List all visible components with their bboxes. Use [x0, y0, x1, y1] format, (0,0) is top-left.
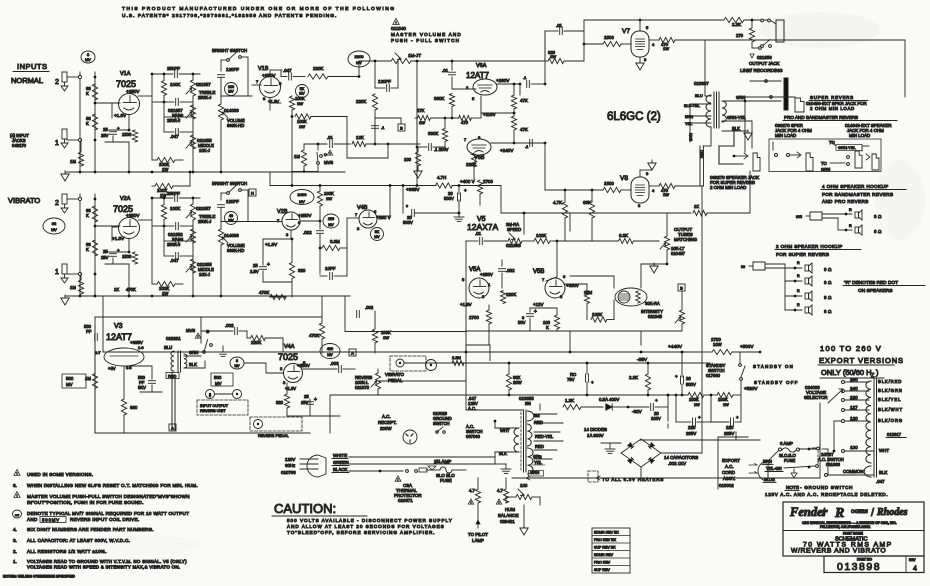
svg-text:1W: 1W [383, 335, 389, 340]
svg-text:BLU: BLU [164, 345, 172, 350]
svg-text:021956: 021956 [757, 55, 772, 60]
svg-text:GRn: GRn [533, 454, 542, 459]
svg-text:100V: 100V [651, 416, 661, 421]
svg-text:14 DIODES: 14 DIODES [584, 427, 607, 432]
svg-text:285V: 285V [686, 431, 696, 436]
svg-text:!: ! [198, 335, 199, 339]
svg-text:MASTER VOLUME AND: MASTER VOLUME AND [391, 32, 462, 37]
svg-text:013002: 013002 [719, 483, 734, 488]
svg-text:BLK/RED: BLK/RED [878, 379, 902, 384]
svg-text:+: + [267, 262, 270, 268]
svg-text:+12V: +12V [533, 302, 543, 307]
svg-text:MV: MV [328, 223, 334, 227]
svg-text:2200: 2200 [355, 54, 365, 59]
svg-text:NORMAL: NORMAL [11, 76, 43, 85]
svg-text:THIS PRODUCT MANUFACTURED UNDE: THIS PRODUCT MANUFACTURED UNDER ONE OR M… [122, 6, 396, 12]
svg-text:127: 127 [850, 405, 858, 410]
svg-text:-62V: -62V [632, 409, 643, 414]
svg-text:999K-HD: 999K-HD [227, 123, 244, 128]
svg-text:PRO REV EX: PRO REV EX [594, 538, 617, 542]
svg-text:V8: V8 [620, 175, 628, 182]
svg-text:B: B [400, 126, 403, 131]
svg-text:K: K [86, 247, 89, 252]
svg-text:A.C.: A.C. [382, 414, 391, 419]
svg-text:2-7: 2-7 [95, 351, 101, 355]
svg-text:1: 1 [55, 269, 59, 276]
svg-text:ONLY (50/60 H: ONLY (50/60 H [821, 368, 872, 377]
svg-text:+440V: +440V [668, 344, 683, 350]
svg-text:Ω: Ω [828, 295, 831, 300]
svg-text:+: + [464, 188, 467, 193]
svg-text:1M: 1M [294, 154, 300, 159]
svg-text:021945: 021945 [648, 314, 663, 319]
svg-text:*: * [406, 205, 408, 211]
svg-text:1500: 1500 [604, 181, 614, 186]
svg-text:NOTES: UNLESS OTHERWISE SPECIF: NOTES: UNLESS OTHERWISE SPECIFIED [3, 575, 75, 579]
svg-text:!: ! [396, 21, 397, 25]
svg-text:021865: 021865 [506, 243, 521, 248]
svg-text:1W: 1W [663, 192, 669, 197]
svg-text:1-6: 1-6 [138, 346, 144, 350]
svg-text:60Hz: 60Hz [285, 463, 295, 468]
svg-text:CORD: CORD [722, 470, 735, 475]
svg-text:REVERB UNIT: REVERB UNIT [200, 409, 226, 413]
svg-text:SUPER REVERB: SUPER REVERB [810, 95, 854, 100]
svg-text:2 OHM MIN LOAD: 2 OHM MIN LOAD [810, 106, 855, 111]
svg-text:!: ! [17, 494, 18, 498]
svg-text:+1.8V: +1.8V [114, 113, 127, 118]
svg-text:BRIGHT SWITCH: BRIGHT SWITCH [212, 48, 247, 53]
svg-text:.01: .01 [327, 135, 333, 140]
svg-text:10K-J: 10K-J [199, 148, 210, 153]
svg-text:20W: 20W [513, 380, 522, 385]
svg-text:500V: 500V [444, 196, 454, 201]
svg-text:BLK: BLK [732, 126, 740, 131]
svg-text:+: + [655, 398, 658, 403]
svg-text:220K: 220K [506, 292, 516, 297]
svg-text:BLK: BLK [189, 362, 197, 367]
svg-text:ON SPEAKERS: ON SPEAKERS [858, 288, 892, 294]
svg-text:Ω: Ω [828, 267, 831, 272]
svg-text:ALL CAPACITOR: AT LEAST 600V,: ALL CAPACITOR: AT LEAST 600V, W.V.D.C. [27, 538, 130, 543]
svg-text:MV: MV [234, 364, 240, 368]
svg-text:BLU: BLU [695, 93, 703, 98]
svg-text:1W: 1W [694, 403, 700, 407]
svg-text:AND ALLOW AT LEAST 20 SECONDS: AND ALLOW AT LEAST 20 SECONDS FOR VOLTAG… [287, 524, 445, 529]
svg-text:MV: MV [299, 92, 305, 96]
svg-text:BLK/ORG: BLK/ORG [878, 418, 903, 423]
svg-text:14 CAPACITORS: 14 CAPACITORS [664, 455, 698, 460]
svg-text:+500V: +500V [740, 344, 754, 349]
svg-text:FOR SUPER REVERB: FOR SUPER REVERB [776, 252, 829, 257]
svg-text:.047: .047 [876, 479, 885, 484]
svg-text:USED IN SOME VERSIONS.: USED IN SOME VERSIONS. [27, 472, 93, 477]
svg-text:!: ! [17, 472, 18, 476]
svg-text:999K-HD: 999K-HD [227, 248, 244, 253]
svg-text:V2A: V2A [120, 196, 131, 202]
svg-text:R: R [849, 224, 852, 228]
svg-text:2 OHM MIN LOAD: 2 OHM MIN LOAD [710, 185, 746, 190]
svg-text:500MV: 500MV [42, 518, 60, 523]
svg-text:V6A: V6A [476, 63, 487, 69]
svg-text:50V: 50V [518, 320, 526, 325]
svg-text:MV: MV [215, 381, 222, 386]
svg-text:INPUT OUTPUT: INPUT OUTPUT [200, 404, 229, 408]
svg-text:BDMR REV EX: BDMR REV EX [594, 530, 619, 534]
svg-text:6L6GC (2): 6L6GC (2) [607, 111, 661, 123]
svg-text:+: + [698, 415, 701, 420]
svg-text:250PF: 250PF [167, 191, 180, 196]
svg-text:013897: 013897 [694, 81, 709, 86]
svg-text:EXPORT: EXPORT [722, 458, 740, 463]
svg-text:+400 V: +400 V [460, 179, 476, 184]
svg-text:2.2K: 2.2K [732, 22, 741, 27]
svg-text:PRO REV: PRO REV [594, 560, 611, 564]
svg-text:40: 40 [229, 214, 233, 218]
svg-text:V1B: V1B [258, 66, 269, 72]
svg-text:V7: V7 [622, 28, 630, 35]
svg-text:120V: 120V [285, 457, 295, 462]
svg-text:+240V: +240V [500, 148, 514, 153]
svg-text:3 AMP: 3 AMP [780, 441, 793, 446]
svg-text:3.3M: 3.3M [330, 239, 340, 244]
svg-text:12K: 12K [356, 135, 364, 140]
svg-text:REV: REV [909, 558, 916, 562]
svg-text:470K: 470K [309, 333, 319, 338]
svg-text:500V: 500V [403, 220, 413, 225]
svg-text:GRN-YEL: GRN-YEL [838, 145, 857, 150]
svg-text:25: 25 [103, 127, 108, 132]
svg-text:021857: 021857 [196, 206, 211, 211]
svg-text:470: 470 [461, 120, 469, 125]
svg-text:RED: RED [535, 444, 544, 449]
svg-text:048270: 048270 [12, 143, 27, 148]
svg-text:R: R [834, 506, 844, 521]
svg-text:TO ALL 6.3V HEATERS: TO ALL 6.3V HEATERS [602, 477, 664, 482]
svg-text:10PF: 10PF [325, 266, 336, 271]
svg-text:V4A: V4A [284, 344, 295, 350]
svg-text:PUSH - PULL SWITCH: PUSH - PULL SWITCH [391, 38, 460, 43]
svg-text:.022: .022 [303, 230, 312, 235]
svg-text:1W: 1W [550, 54, 556, 59]
svg-text:Ω: Ω [828, 280, 831, 285]
svg-text:BLK/YEL: BLK/YEL [878, 397, 901, 402]
svg-text:75V: 75V [567, 377, 575, 382]
svg-text:25: 25 [304, 394, 309, 399]
svg-text:2700: 2700 [483, 179, 493, 184]
svg-text:K: K [86, 121, 89, 126]
svg-text:680: 680 [130, 405, 138, 410]
svg-text:R: R [797, 261, 800, 265]
svg-text:+6V: +6V [108, 366, 116, 371]
svg-text:5K: 5K [300, 87, 305, 91]
svg-text:!: ! [330, 152, 331, 156]
svg-text:BLACK: BLACK [333, 467, 347, 472]
svg-text:SWITCH: SWITCH [433, 421, 450, 426]
svg-text:K: K [546, 325, 549, 330]
svg-text:R: R [849, 208, 852, 212]
svg-text:022921: 022921 [166, 336, 181, 341]
svg-text:FULLERTON, CALIFORNIA 92631: FULLERTON, CALIFORNIA 92631 [820, 525, 871, 529]
svg-text:014038: 014038 [224, 233, 239, 238]
svg-text:VOLTAGES READ WITH SPEED & INT: VOLTAGES READ WITH SPEED & INTENSITY MAX… [27, 565, 180, 570]
svg-text:100K: 100K [689, 397, 699, 402]
svg-text:LAMP: LAMP [472, 538, 484, 543]
svg-text:ALL RESISTORS 1/2 WATT ±10%.: ALL RESISTORS 1/2 WATT ±10%. [27, 549, 107, 554]
svg-text:V5B: V5B [533, 269, 544, 275]
svg-text:+365V: +365V [406, 187, 420, 192]
svg-text:REVERB PEDAL: REVERB PEDAL [258, 433, 289, 438]
svg-text:2 OHM SPEAKER HOOKUP: 2 OHM SPEAKER HOOKUP [776, 244, 843, 249]
svg-text:120: 120 [850, 416, 858, 421]
svg-text:47K: 47K [520, 98, 528, 103]
svg-text:4.7H: 4.7H [437, 175, 446, 180]
svg-text:4.: 4. [13, 527, 17, 532]
svg-text:!: ! [499, 501, 500, 505]
svg-text:SELECTOR: SELECTOR [804, 395, 828, 400]
svg-text:1: 1 [55, 140, 59, 147]
svg-text:NOTE: NOTE [786, 485, 799, 490]
svg-text:MIN LOAD: MIN LOAD [775, 133, 796, 138]
svg-text:500V: 500V [686, 382, 696, 387]
svg-text:220: 220 [850, 395, 858, 400]
svg-text:1M: 1M [70, 159, 76, 164]
svg-text:RECEPT.: RECEPT. [378, 420, 397, 425]
svg-text:029421: 029421 [500, 519, 515, 524]
svg-text:.047: .047 [283, 68, 292, 73]
svg-text:+280V: +280V [496, 78, 510, 83]
svg-text:V5A: V5A [469, 267, 480, 273]
svg-text:R: R [797, 303, 800, 307]
svg-text:H: H [251, 191, 254, 196]
svg-text:100K: 100K [536, 233, 546, 238]
svg-text:BALANCE: BALANCE [498, 513, 519, 518]
svg-text:2½ AMP: 2½ AMP [434, 458, 451, 464]
svg-text:REVERB INPUT COIL DRIVE.: REVERB INPUT COIL DRIVE. [70, 517, 139, 522]
svg-text:1A 800V: 1A 800V [587, 433, 604, 438]
svg-text:BDMR REV: BDMR REV [594, 553, 614, 557]
svg-text:.002 1KV: .002 1KV [668, 461, 686, 466]
svg-text:MV: MV [374, 235, 380, 239]
svg-text:4.7: 4.7 [469, 488, 475, 493]
svg-text:R: R [797, 274, 800, 278]
svg-text:.047: .047 [170, 258, 179, 263]
svg-text:500 VOLTS AVAILABLE - DISCONNE: 500 VOLTS AVAILABLE - DISCONNECT POWER S… [287, 518, 453, 523]
svg-text:WHT: WHT [500, 428, 510, 433]
svg-text:3.3K: 3.3K [619, 233, 628, 238]
svg-text:STANDBY ON: STANDBY ON [753, 364, 794, 369]
svg-text:!: ! [398, 478, 399, 482]
svg-text:1W: 1W [297, 101, 303, 106]
svg-text:037060: 037060 [466, 434, 481, 439]
svg-text:6.: 6. [13, 483, 17, 488]
svg-text:200W: 200W [380, 426, 392, 431]
svg-text:7025: 7025 [116, 79, 136, 89]
svg-text:SUP REV: SUP REV [594, 568, 610, 572]
svg-text:33: 33 [52, 221, 57, 226]
svg-text:INPUTS: INPUTS [17, 62, 48, 71]
svg-text:Ω: Ω [878, 229, 881, 234]
svg-text:4.7K: 4.7K [553, 200, 562, 205]
svg-text:1500: 1500 [122, 132, 132, 137]
svg-text:150: 150 [328, 217, 334, 221]
svg-text:V1A: V1A [120, 71, 131, 77]
svg-text:-58V: -58V [637, 357, 648, 363]
svg-text:10W: 10W [713, 342, 722, 347]
svg-text:COMMON: COMMON [843, 469, 864, 474]
svg-text:MVS: MVS [324, 160, 333, 165]
svg-text:GRN: GRN [736, 95, 745, 100]
svg-text:220K: 220K [466, 162, 476, 167]
svg-text:011540: 011540 [391, 26, 406, 31]
svg-text:250K-J: 250K-J [167, 118, 180, 123]
svg-text:BN: BN [525, 401, 531, 406]
svg-text:+395V: +395V [130, 340, 143, 345]
svg-text:PART NAME: PART NAME [843, 532, 864, 536]
svg-text:SUP REV EX: SUP REV EX [594, 545, 616, 549]
svg-text:125V A.C. AND A.C. RECEPTACLE: 125V A.C. AND A.C. RECEPTACLE DELETED. [765, 492, 888, 497]
svg-text:100: 100 [228, 85, 234, 89]
svg-text:120PF: 120PF [226, 67, 239, 72]
svg-text:MV: MV [51, 228, 57, 232]
svg-text:TO”BLEED”OFF, BEFORE SERVICING: TO”BLEED”OFF, BEFORE SERVICING AMPLIFIER… [287, 530, 436, 535]
svg-text:3: 3 [87, 53, 89, 57]
svg-text:TO PILOT: TO PILOT [468, 532, 488, 537]
svg-text:.1 200V: .1 200V [434, 147, 449, 152]
svg-text:VIBRATO: VIBRATO [8, 196, 40, 205]
svg-text:MIN LOAD: MIN LOAD [849, 133, 870, 138]
svg-text:+: + [675, 374, 678, 379]
svg-text:MATCHING: MATCHING [674, 237, 698, 242]
svg-text:Ω: Ω [828, 309, 831, 314]
svg-text:5KV: 5KV [138, 385, 146, 390]
svg-text:BRIGHT SWITCH: BRIGHT SWITCH [212, 181, 247, 186]
svg-text:2: 2 [55, 79, 59, 86]
svg-text:SIX DIGIT NUMBERS ARE FENDER P: SIX DIGIT NUMBERS ARE FENDER PART NUMBER… [27, 527, 154, 532]
svg-text:820: 820 [276, 400, 284, 405]
svg-text:330K: 330K [428, 131, 438, 136]
svg-text:0.5A 400V: 0.5A 400V [599, 397, 619, 402]
svg-text:WHT: WHT [879, 448, 889, 453]
svg-text:010671: 010671 [398, 498, 413, 503]
svg-text:8: 8 [236, 359, 238, 363]
svg-text:+: + [314, 397, 317, 403]
svg-text:017960: 017960 [706, 373, 721, 378]
svg-text:YEL-GN: YEL-GN [766, 466, 782, 471]
svg-text:1M: 1M [70, 285, 76, 290]
svg-text:021857: 021857 [196, 82, 211, 87]
svg-text:R: R [797, 289, 800, 293]
svg-text:100: 100 [520, 483, 528, 488]
svg-text:GREEN: GREEN [333, 460, 349, 465]
svg-text:1.2K: 1.2K [565, 398, 574, 403]
svg-text:BLUE: BLUE [764, 477, 775, 482]
svg-text:AND PRO REVERB: AND PRO REVERB [822, 199, 869, 204]
svg-text:1W: 1W [299, 124, 305, 129]
svg-text:A: A [171, 426, 174, 431]
svg-text:1.: 1. [13, 559, 17, 564]
svg-text:1W: 1W [162, 167, 168, 172]
svg-text:100 TO 260 V: 100 TO 260 V [820, 344, 882, 353]
svg-text:2: 2 [55, 200, 59, 207]
svg-text:.047: .047 [170, 134, 179, 139]
svg-text:4.7: 4.7 [497, 488, 503, 493]
svg-text:1W: 1W [326, 196, 332, 201]
svg-text:47K: 47K [520, 127, 528, 132]
svg-text:5K: 5K [375, 230, 380, 234]
svg-text:4: 4 [913, 566, 917, 573]
svg-text:220K: 220K [251, 340, 261, 345]
svg-text:WHEN INSTALLING NEW 6L6'S RESE: WHEN INSTALLING NEW 6L6'S RESET O.T. MAT… [27, 483, 198, 488]
svg-text:285V: 285V [724, 431, 734, 436]
svg-text:905: 905 [796, 215, 802, 219]
svg-text:220: 220 [726, 425, 734, 430]
svg-text:4 OHM SPEAKER HOOKUP: 4 OHM SPEAKER HOOKUP [822, 184, 889, 189]
svg-text:.022: .022 [506, 268, 515, 273]
svg-text:ASSY.: ASSY. [723, 476, 735, 481]
svg-text:250K-J: 250K-J [198, 95, 211, 100]
svg-text:!: ! [471, 501, 472, 505]
svg-text:FOR BANDMASTER REVERB: FOR BANDMASTER REVERB [822, 192, 893, 197]
svg-text:100: 100 [404, 157, 412, 162]
svg-text:2.2K: 2.2K [629, 375, 638, 380]
svg-text:A.C.: A.C. [725, 464, 734, 469]
svg-text:Rhodes: Rhodes [876, 507, 908, 518]
svg-text:1W: 1W [663, 46, 669, 51]
svg-text:500: 500 [66, 376, 74, 381]
svg-text:+250V: +250V [480, 272, 493, 277]
svg-text:+: + [591, 380, 594, 385]
svg-text:1W: 1W [723, 403, 729, 407]
svg-text:.003: .003 [330, 361, 339, 366]
svg-text:K: K [86, 213, 89, 218]
svg-text:250PF: 250PF [167, 66, 180, 71]
svg-text:PF: PF [86, 329, 92, 334]
svg-text:- GROUND SWITCH: - GROUND SWITCH [800, 485, 853, 490]
svg-text:GRN-YEL: GRN-YEL [727, 115, 746, 120]
svg-text:100K: 100K [592, 312, 602, 317]
svg-text:TO: TO [821, 161, 827, 166]
svg-text:220K: 220K [313, 66, 323, 71]
svg-text:25: 25 [253, 263, 258, 268]
svg-text:A: A [351, 352, 354, 356]
svg-text:3-8: 3-8 [126, 366, 132, 370]
svg-text:014038: 014038 [224, 108, 239, 113]
svg-text:GRN: GRN [821, 167, 830, 172]
svg-text:MV: MV [299, 200, 305, 204]
svg-text:3.: 3. [13, 538, 17, 543]
svg-text:+520V: +520V [744, 386, 758, 391]
svg-text:V3: V3 [114, 323, 123, 330]
svg-text:.01: .01 [442, 68, 449, 73]
svg-text:CAUTION:: CAUTION: [274, 501, 336, 516]
svg-text:PRO AND BANDMASTER REVERB: PRO AND BANDMASTER REVERB [784, 115, 858, 120]
svg-text:470K: 470K [259, 290, 269, 295]
svg-text:420: 420 [327, 347, 333, 351]
svg-text:RED-YEL: RED-YEL [535, 434, 554, 439]
svg-text:EXPORT VERSIONS: EXPORT VERSIONS [819, 356, 904, 365]
svg-text:12AT7: 12AT7 [106, 332, 132, 342]
svg-text:250K-J: 250K-J [198, 219, 211, 224]
svg-text:012917: 012917 [887, 432, 902, 437]
svg-text:010457: 010457 [671, 251, 686, 256]
svg-text:120PF: 120PF [378, 79, 391, 84]
svg-text:1W: 1W [162, 291, 168, 296]
svg-text:68K: 68K [583, 200, 591, 205]
svg-text:2.5V: 2.5V [250, 269, 259, 274]
svg-text:10M: 10M [584, 290, 593, 295]
svg-text:HUM: HUM [505, 507, 515, 512]
